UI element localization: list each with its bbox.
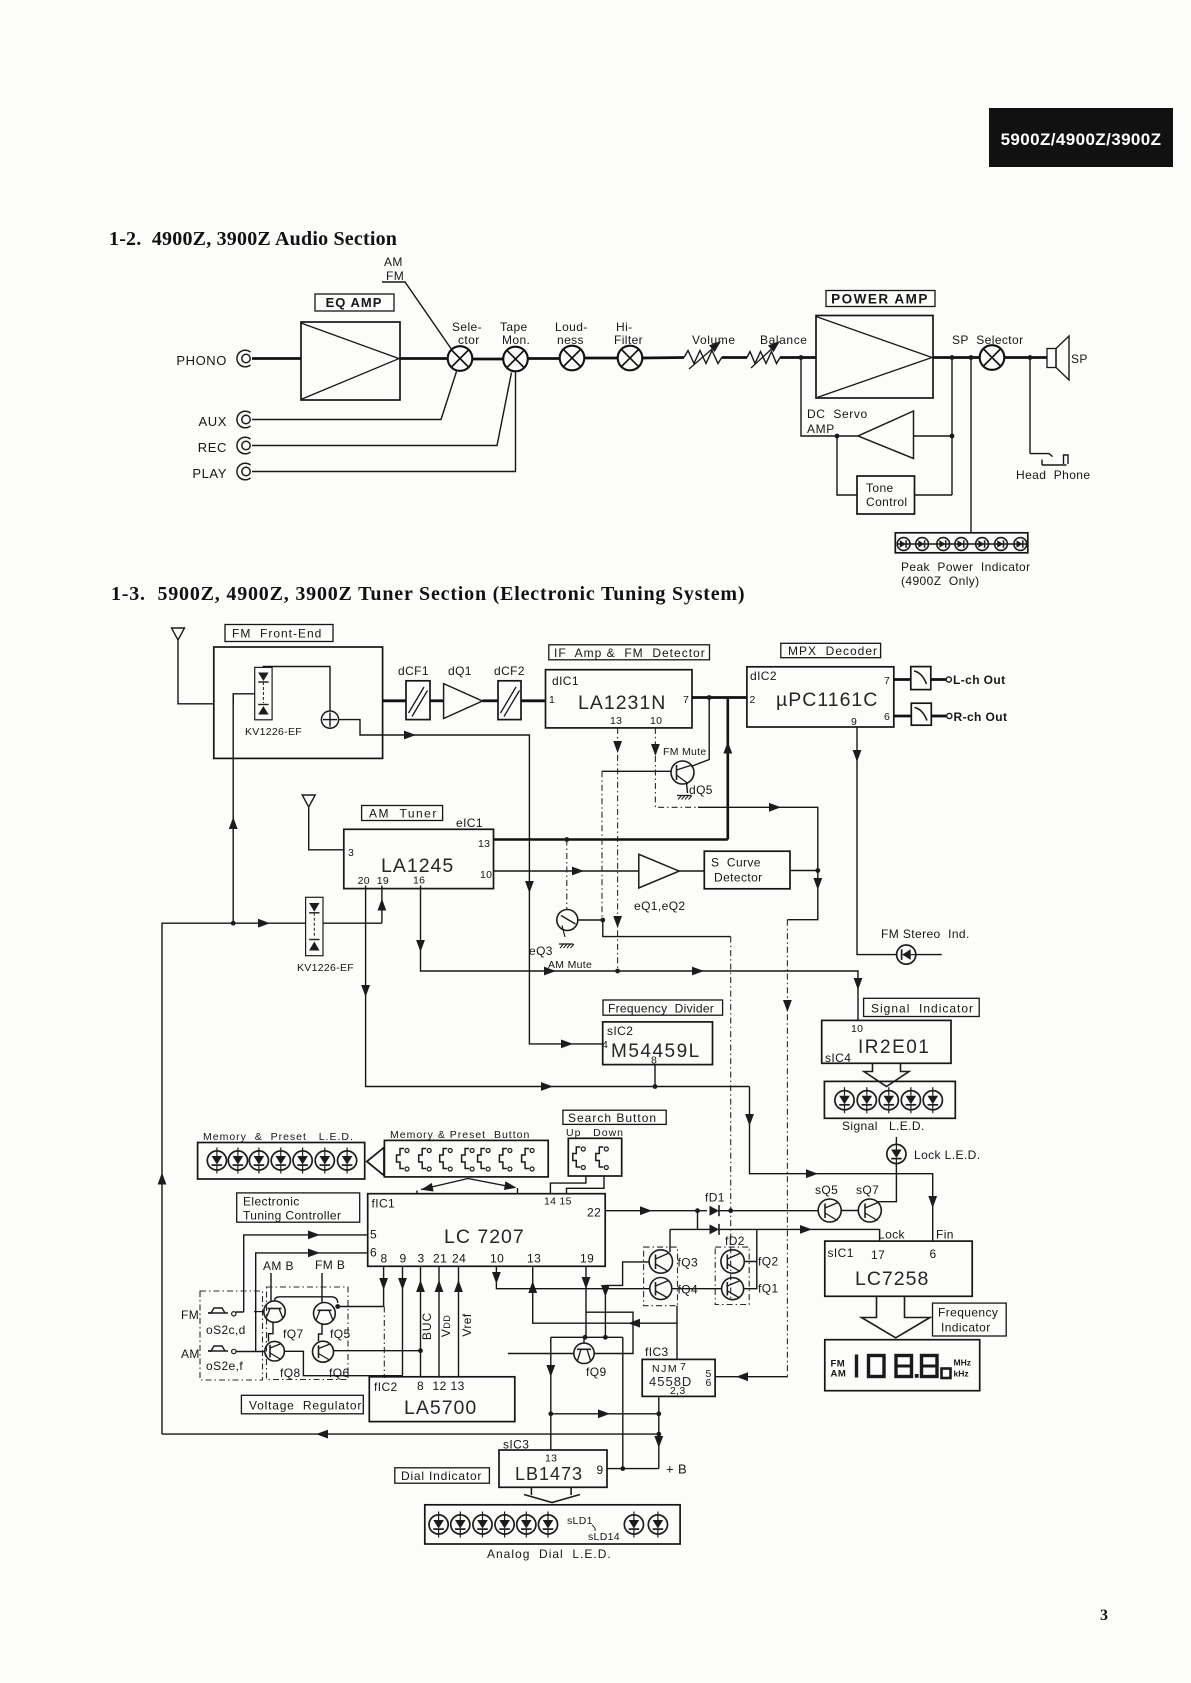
svg-text:9: 9 (597, 1463, 604, 1477)
display frequency 108.8 (825, 1340, 980, 1391)
svg-text:Lock: Lock (878, 1228, 906, 1242)
wire bus right down to +B (622, 1337, 624, 1468)
Signal Indicator label (864, 998, 980, 1016)
svg-text:13: 13 (545, 1453, 557, 1465)
transistor dQ5 FM mute (671, 761, 713, 797)
switch Loudness (560, 346, 585, 371)
svg-text:13: 13 (527, 1252, 541, 1266)
wire fQ7/fQ5 collectors to pin8 (275, 1297, 338, 1303)
svg-text:10: 10 (490, 1252, 504, 1266)
svg-text:Hi-: Hi- (616, 320, 633, 334)
wire varactor bias horizontal (233, 922, 382, 924)
svg-text:10: 10 (650, 715, 662, 727)
wire FM B to fQ5 (321, 1273, 323, 1303)
wire to LC7258 Fin (750, 1087, 933, 1242)
wire AM B to fQ7 (270, 1273, 272, 1301)
svg-text:15: 15 (560, 1196, 572, 1208)
svg-text:fQ5: fQ5 (330, 1327, 351, 1341)
svg-text:sIC1: sIC1 (828, 1246, 854, 1260)
svg-text:1-3. 5900Z, 4900Z, 3900Z Tune: 1-3. 5900Z, 4900Z, 3900Z Tuner Section (… (111, 583, 745, 605)
IC sIC2 M54459L (602, 1022, 713, 1067)
svg-text:fIC3: fIC3 (645, 1345, 669, 1359)
wire LC7207 pin13 route (533, 1266, 677, 1323)
wire LA1245 pin19 (381, 886, 383, 924)
wire phono to EQ (252, 357, 301, 360)
switch Selector (448, 346, 473, 371)
svg-text:20: 20 (358, 875, 370, 887)
wire eQ3 collector to dQ5 base (dash vertical) (578, 919, 603, 921)
svg-text:Tone: Tone (866, 481, 894, 495)
wire power amp to SP selector (933, 356, 980, 359)
IF Amp & FM Detector label (549, 645, 710, 660)
svg-text:Search Button: Search Button (568, 1111, 657, 1125)
Voltage Regulator label (241, 1395, 363, 1414)
svg-text:6: 6 (706, 1377, 712, 1389)
wire NJM pins2,3 down to +B (658, 1396, 660, 1468)
Electronic Tuning Controller label (237, 1193, 360, 1223)
wire AM antenna to LA1245 pin3 (309, 809, 344, 850)
wire varactor bias down from front-end (232, 694, 234, 923)
svg-text:KV1226-EF: KV1226-EF (297, 962, 354, 974)
wire selector to tape (473, 358, 504, 361)
svg-text:sQ7: sQ7 (856, 1183, 879, 1197)
svg-text:Mon.: Mon. (502, 333, 530, 347)
svg-text:Sele-: Sele- (452, 320, 482, 334)
svg-text:eQ1,eQ2: eQ1,eQ2 (634, 899, 686, 913)
IC fIC2 LA5700 (369, 1377, 515, 1422)
wire dIC1 pin13 down (617, 728, 619, 971)
switch Hi-Filter (618, 346, 643, 371)
indicator Lock LED (887, 1137, 981, 1167)
IC fIC1 LC7207 (368, 1194, 606, 1267)
svg-text:8: 8 (651, 1055, 657, 1067)
arrow big left (367, 1148, 384, 1176)
wire loudness to hi-filter (584, 357, 618, 360)
wire LC7207 pin10 to fQ4 (496, 1266, 649, 1288)
wire fD2 left to fQ3 (669, 1229, 671, 1252)
svg-text:FM: FM (181, 1308, 199, 1322)
wire LC7207 pin8 down (383, 1266, 385, 1306)
transistor fQ1 (722, 1278, 779, 1300)
svg-text:ness: ness (557, 333, 584, 347)
wire fQ9 collector bus (551, 1336, 623, 1338)
svg-text:AMP: AMP (807, 422, 835, 436)
wire bottom long return (162, 1433, 659, 1435)
svg-text:7: 7 (680, 1361, 686, 1373)
svg-text:LA5700: LA5700 (404, 1397, 477, 1419)
svg-text:fD1: fD1 (705, 1191, 725, 1205)
IC sIC3 LB1473 (499, 1438, 607, 1488)
svg-text:6: 6 (884, 711, 890, 723)
wire LC7207 pin6 (236, 1253, 368, 1352)
svg-text:21: 21 (433, 1252, 447, 1266)
wire dCF1 to dQ1 (430, 699, 444, 702)
svg-text:5900Z/4900Z/3900Z: 5900Z/4900Z/3900Z (1001, 130, 1162, 149)
wire LC7207 pin22 to fD1 (605, 1210, 707, 1212)
svg-text:19: 19 (377, 875, 389, 887)
svg-text:fIC2: fIC2 (374, 1380, 398, 1394)
diode fD1 (705, 1191, 725, 1217)
block FM Front-End (214, 647, 383, 758)
wire SP selector to speaker (1004, 356, 1047, 359)
wire +B (607, 1468, 659, 1470)
wire fQ9 base left (508, 1353, 574, 1355)
svg-text:4: 4 (602, 1039, 608, 1051)
svg-text:fQ9: fQ9 (586, 1365, 607, 1379)
svg-text:LA1231N: LA1231N (578, 692, 666, 714)
varactor KV1226-EF (front end) (245, 667, 302, 738)
svg-text:1-2. 4900Z, 3900Z Audio Secti: 1-2. 4900Z, 3900Z Audio Section (109, 228, 397, 250)
svg-text:BUC: BUC (420, 1312, 434, 1340)
wire fQ3 base staircase (605, 1262, 649, 1337)
wire tuning voltage to freq divider (383, 735, 603, 1044)
wire IF out to dCF1 (383, 699, 406, 702)
svg-text:dQ5: dQ5 (689, 783, 713, 797)
transistor sQ5 (815, 1183, 841, 1222)
svg-text:12: 12 (433, 1379, 447, 1393)
wire front-end internals (233, 667, 382, 736)
svg-text:AM: AM (384, 255, 403, 269)
varactor KV1226-EF (AM) (297, 897, 354, 974)
wire bus left down to LB1473 pin13 (550, 1337, 552, 1450)
wire fD2 branch (670, 1211, 880, 1241)
transistor fQ4 (650, 1278, 698, 1300)
arrow block LC7258 to display (862, 1296, 931, 1338)
op-amp DC Servo AMP (807, 407, 914, 459)
block Tone Control (857, 476, 915, 514)
FM Front-End label (225, 625, 333, 642)
svg-text:LC 7207: LC 7207 (444, 1226, 525, 1248)
wire dCF2 to dIC1 (521, 699, 546, 702)
svg-text:13: 13 (478, 838, 490, 850)
svg-text:REC: REC (198, 440, 227, 455)
arrow block LB1473 to dial LEDs (524, 1487, 580, 1502)
IC dIC2 uPC1161C (747, 667, 894, 728)
node junction to DC servo (799, 355, 804, 360)
svg-text:FM Front-End: FM Front-End (232, 627, 322, 641)
potentiometer Balance (747, 333, 808, 368)
potentiometer Volume (684, 333, 736, 369)
speaker SP (1047, 336, 1088, 380)
button Search Up/Down (566, 1127, 624, 1176)
wire volume to balance (722, 356, 747, 359)
arrow block IR2E01 to LEDs (864, 1063, 909, 1086)
svg-text:Filter: Filter (614, 333, 643, 347)
IC sIC1 LC7258 (825, 1228, 972, 1297)
svg-text:Memory & Preset Button: Memory & Preset Button (390, 1129, 530, 1141)
svg-text:Peak Power Indicator: Peak Power Indicator (901, 560, 1031, 574)
filter de-emphasis L (894, 667, 931, 690)
svg-text:dCF1: dCF1 (398, 664, 429, 678)
svg-text:fQ7: fQ7 (283, 1327, 304, 1341)
wire hi-filter to volume (642, 356, 684, 359)
wire tape to loudness (528, 357, 560, 360)
svg-text:oS2e,f: oS2e,f (206, 1359, 243, 1373)
svg-text:17: 17 (871, 1248, 885, 1262)
svg-text:sLD14: sLD14 (588, 1531, 620, 1543)
wire fQ7 to fQ8 (269, 1322, 274, 1341)
svg-text:VDD: VDD (439, 1315, 453, 1337)
wire LC7207 pin24 to LA5700 pin13 (VDD Vref) (458, 1266, 460, 1377)
svg-text:µPC1161C: µPC1161C (776, 689, 878, 711)
net FM Mute arrow (651, 744, 660, 756)
filter de-emphasis R (894, 703, 932, 725)
wire sQ5-sQ7 (841, 1210, 858, 1212)
svg-text:Detector: Detector (714, 871, 763, 885)
svg-text:MPX Decoder: MPX Decoder (788, 644, 878, 658)
svg-text:1: 1 (549, 694, 555, 706)
wire eQ3 collector feed from pin13 line (566, 840, 568, 910)
wire AM join vertical (726, 698, 729, 840)
wire lock LED to sQ7 (878, 1164, 896, 1202)
svg-text:Electronic: Electronic (243, 1195, 300, 1209)
svg-text:Tape: Tape (500, 320, 528, 334)
wire M54459L pin8 down (654, 1065, 656, 1087)
svg-text:22: 22 (587, 1206, 601, 1220)
svg-text:FM: FM (386, 269, 404, 283)
Search Button label (563, 1110, 666, 1125)
svg-text:3: 3 (1100, 1607, 1108, 1624)
svg-text:ctor: ctor (458, 333, 480, 347)
svg-text:POWER AMP: POWER AMP (831, 292, 929, 307)
wire dQ5 emitter to ground (687, 783, 688, 794)
svg-text:9: 9 (400, 1252, 407, 1266)
switch Tape Mon. (503, 347, 528, 372)
svg-text:Volume: Volume (692, 333, 736, 347)
svg-text:2: 2 (750, 694, 756, 706)
wire dQ1 to dCF2 (482, 699, 498, 702)
IC dIC1 LA1231N (546, 670, 693, 728)
svg-text:PLAY: PLAY (192, 466, 227, 481)
wire LA1245 pin13 AM out (thick) (494, 838, 728, 841)
svg-text:sIC4: sIC4 (825, 1051, 851, 1065)
svg-text:5: 5 (370, 1228, 377, 1242)
IC eIC1 LA1245 (344, 816, 494, 889)
svg-text:MHz: MHz (954, 1358, 971, 1368)
svg-text:19: 19 (580, 1252, 594, 1266)
wire LC7207 pin21 to LA5700 pin12 (BUC) (438, 1266, 440, 1377)
svg-text:Frequency: Frequency (938, 1306, 998, 1320)
wire fQ1/fQ2 collectors to fD2 line (672, 1229, 757, 1288)
wire fQ5 to fQ6 (319, 1324, 323, 1341)
diode fD2 (710, 1224, 745, 1248)
ground dQ5 (677, 796, 692, 800)
AM Tuner label (362, 806, 443, 821)
svg-text:FM Mute: FM Mute (663, 746, 707, 758)
transistor dQ1 amp (444, 664, 483, 719)
svg-text:Indicator: Indicator (941, 1321, 991, 1335)
svg-text:AM Mute: AM Mute (548, 959, 592, 971)
svg-text:S Curve: S Curve (711, 856, 761, 870)
svg-text:fD2: fD2 (725, 1234, 745, 1248)
svg-text:Loud-: Loud- (555, 320, 588, 334)
transistor eQ1,eQ2 amp (634, 854, 686, 913)
svg-text:AM B: AM B (263, 1259, 294, 1273)
transistor fQ7 (254, 1301, 304, 1341)
svg-text:14: 14 (544, 1196, 556, 1208)
svg-text:Control: Control (866, 495, 907, 509)
wire search to pins 14,15 (550, 1176, 604, 1194)
svg-text:sQ5: sQ5 (815, 1183, 838, 1197)
switch SP Selector (980, 345, 1005, 370)
wire LA1245 pin10 to eQ1 amp (494, 870, 639, 872)
IC sIC4 IR2E01 (822, 1020, 951, 1065)
svg-text:3: 3 (348, 847, 354, 859)
IC fIC3 NJM4558D (642, 1345, 715, 1397)
wire LC7207 pin3 to LA5700 pin8 (420, 1266, 422, 1377)
svg-text:Balance: Balance (760, 333, 808, 347)
wire dIC1 pin7 to dIC2 pin2 (692, 696, 747, 699)
wire S curve out junction (790, 870, 818, 872)
transistor eQ3 AM mute (529, 910, 578, 959)
wire LC7207 pin19 down (585, 1266, 587, 1337)
svg-text:fQ8: fQ8 (280, 1366, 301, 1380)
transistor fQ8 (265, 1341, 301, 1380)
svg-text:7: 7 (884, 675, 890, 687)
svg-text:13: 13 (610, 715, 622, 727)
transistor fQ2 (715, 1247, 778, 1304)
wire LA1245 pin20 down (366, 886, 750, 1087)
svg-text:dIC2: dIC2 (750, 669, 777, 683)
wire dIC2 pin9 to FM stereo LED (857, 727, 942, 955)
svg-text:EQ AMP: EQ AMP (326, 295, 383, 310)
svg-text:oS2c,d: oS2c,d (206, 1323, 246, 1337)
wire fQ9 right jog (586, 1312, 633, 1353)
transistor fQ6 (313, 1341, 350, 1380)
svg-text:3: 3 (418, 1252, 425, 1266)
wire left tuning bias long vertical (162, 923, 233, 1434)
svg-text:Lock L.E.D.: Lock L.E.D. (914, 1148, 980, 1162)
POWER AMP label (826, 291, 935, 307)
wire AM/FM to selector (382, 282, 452, 350)
wire fD1 to sQ5 (719, 1210, 818, 1212)
svg-text:24: 24 (452, 1252, 466, 1266)
svg-text:LC7258: LC7258 (855, 1268, 929, 1290)
svg-text:6: 6 (930, 1247, 937, 1261)
svg-text:sLD1: sLD1 (567, 1515, 593, 1527)
svg-text:SP: SP (1071, 352, 1088, 366)
wire y1413 to NJM bottom (551, 1413, 659, 1415)
svg-text:Signal Indicator: Signal Indicator (871, 1002, 974, 1016)
svg-text:R-ch Out: R-ch Out (954, 710, 1008, 724)
indicator Peak Power L.E.D. row (895, 533, 1030, 588)
svg-text:DC Servo: DC Servo (807, 407, 868, 421)
transistor fQ9 (574, 1337, 607, 1379)
wire LA1245 pin16 to signal indicator (421, 886, 859, 1021)
wire eQ1 to S curve detector (679, 870, 704, 872)
svg-text:7: 7 (683, 694, 689, 706)
wire power amp out down to DC servo (951, 358, 953, 496)
terminal R-ch Out (931, 710, 1007, 724)
op-amp POWER AMP (816, 316, 933, 399)
svg-text:sIC2: sIC2 (607, 1024, 633, 1038)
Dial Indicator label (395, 1468, 490, 1483)
switch oS2c,d FM (181, 1308, 246, 1337)
wire DC servo feedback top (801, 358, 858, 437)
wire EQ to selector (400, 357, 448, 360)
svg-text:6: 6 (370, 1246, 377, 1260)
svg-text:10: 10 (480, 869, 492, 881)
svg-text:LB1473: LB1473 (515, 1464, 583, 1484)
wire button bus to LC7207 (417, 1179, 518, 1194)
Frequency Divider label (603, 1000, 723, 1016)
svg-text:AM: AM (181, 1347, 200, 1361)
transistor fQ5 (314, 1303, 351, 1342)
svg-text:KV1226-EF: KV1226-EF (245, 726, 302, 738)
block S Curve Detector (704, 851, 790, 889)
svg-text:8: 8 (417, 1379, 424, 1393)
svg-text:AUX: AUX (198, 414, 227, 429)
svg-text:dQ1: dQ1 (448, 664, 472, 678)
headphone jack (1016, 454, 1090, 482)
wire fQ6 collector to pin3 net (334, 1350, 421, 1352)
svg-text:PHONO: PHONO (176, 353, 227, 368)
antenna FM (172, 628, 185, 642)
svg-text:(4900Z Only): (4900Z Only) (901, 574, 980, 588)
svg-text:13: 13 (451, 1379, 465, 1393)
svg-text:eQ3: eQ3 (529, 944, 553, 958)
svg-text:fQ2: fQ2 (758, 1255, 779, 1269)
wire FM antenna to front-end (178, 642, 214, 704)
MPX Decoder label (781, 643, 881, 658)
wire tone control loop (837, 436, 952, 495)
svg-text:+ B: + B (666, 1462, 687, 1477)
svg-text:Voltage Regulator: Voltage Regulator (249, 1399, 362, 1413)
wire S curve down (dash) to NJM4558 (786, 920, 788, 1377)
svg-text:dCF2: dCF2 (494, 664, 525, 678)
svg-text:fQ6: fQ6 (329, 1366, 350, 1380)
svg-text:IR2E01: IR2E01 (858, 1037, 930, 1058)
svg-text:10: 10 (851, 1023, 863, 1035)
transistor sQ7 (856, 1183, 881, 1222)
svg-text:dIC1: dIC1 (552, 674, 579, 688)
terminal L-ch Out (931, 673, 1006, 687)
EQ AMP label (315, 294, 394, 311)
indicator Analog Dial LED row (425, 1505, 680, 1561)
svg-text:Memory & Preset L.E.D.: Memory & Preset L.E.D. (203, 1131, 354, 1143)
svg-text:FM Stereo Ind.: FM Stereo Ind. (881, 927, 970, 941)
svg-text:Analog Dial L.E.D.: Analog Dial L.E.D. (487, 1547, 612, 1561)
svg-text:9: 9 (851, 716, 857, 728)
ground eQ3 (559, 944, 574, 948)
svg-text:2,3: 2,3 (670, 1385, 686, 1397)
svg-text:fQ1: fQ1 (758, 1282, 779, 1296)
svg-text:16: 16 (413, 875, 425, 887)
svg-text:fIC1: fIC1 (372, 1197, 396, 1211)
wire LC7207 pin9 down (402, 1266, 404, 1375)
svg-text:Frequency Divider: Frequency Divider (608, 1002, 714, 1016)
svg-text:Fin: Fin (936, 1228, 954, 1242)
wire fQ8 collector to pin9 (284, 1351, 402, 1375)
box dash fQ matrix (267, 1287, 349, 1380)
wire balance to power amp (780, 356, 816, 359)
svg-text:8: 8 (381, 1252, 388, 1266)
antenna AM (302, 795, 315, 809)
svg-text:Vref: Vref (460, 1313, 474, 1336)
indicator Signal LED row (824, 1081, 955, 1133)
svg-text:fQ4: fQ4 (678, 1283, 699, 1297)
svg-text:SP Selector: SP Selector (952, 333, 1024, 347)
svg-text:eIC1: eIC1 (456, 816, 483, 830)
wire to peak power indicator (970, 358, 972, 533)
svg-text:Tuning Controller: Tuning Controller (243, 1209, 341, 1223)
box dash oS2 group (200, 1291, 263, 1380)
svg-text:Up Down: Up Down (566, 1127, 624, 1139)
svg-text:Head Phone: Head Phone (1016, 468, 1090, 482)
Frequency Indicator label (933, 1303, 1007, 1336)
svg-text:IF Amp & FM Detector: IF Amp & FM Detector (554, 646, 706, 660)
wire dIC1 pin10 down to S-curve join (655, 728, 700, 807)
